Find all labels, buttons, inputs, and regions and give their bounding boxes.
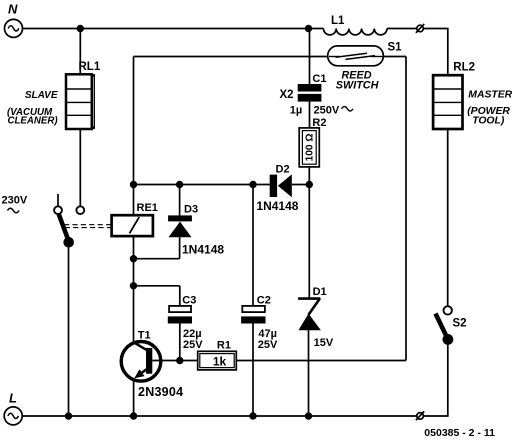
node bottom rail / emitter — [130, 412, 137, 419]
AC source L (mains live terminal) — [4, 407, 22, 425]
svg-text:C1: C1 — [312, 73, 326, 85]
wire C3 branch horizontal — [134, 285, 180, 287]
capacitor C2 (electrolytic) — [241, 306, 265, 324]
svg-text:SLAVE: SLAVE — [25, 90, 58, 101]
relay contact RL2 — [433, 75, 462, 129]
wire right loop vertical — [405, 57, 407, 361]
svg-text:S1: S1 — [388, 42, 403, 54]
node C2 top — [249, 181, 256, 188]
node R2 bottom / D1 — [306, 181, 313, 188]
relay contact RL1 — [66, 74, 95, 129]
wire C2 bottom — [252, 324, 254, 417]
capacitor C3 (electrolytic) — [168, 306, 192, 324]
tilde 250V — [342, 107, 354, 111]
wire bottom rail — [22, 415, 417, 417]
mechanical link dashes (RE1 to contact) — [64, 225, 112, 228]
wire S2 top to RL2 — [447, 129, 449, 306]
node base / C3 — [176, 357, 183, 364]
svg-text:MASTER: MASTER — [468, 89, 512, 100]
relay coil RE1 — [112, 215, 153, 236]
svg-text:D2: D2 — [276, 164, 290, 176]
inductor L1 — [324, 29, 388, 35]
switch blade (relay contact arm) — [59, 214, 69, 242]
svg-text:N: N — [8, 2, 18, 17]
wire D3 bottom — [179, 237, 181, 259]
transistor T1 — [121, 342, 161, 382]
svg-text:1N4148: 1N4148 — [182, 243, 224, 257]
node bottom rail / D1 — [305, 412, 312, 419]
wire reed line vertical x=133.5 (down to transistor) — [133, 57, 135, 216]
tilde 230V — [8, 208, 20, 213]
wire supply node horizontal y=184.5 — [134, 184, 271, 186]
resistor R2 — [299, 128, 319, 167]
svg-text:C3: C3 — [182, 294, 196, 306]
svg-text:C2: C2 — [257, 294, 271, 306]
svg-text:CLEANER): CLEANER) — [8, 115, 58, 126]
svg-text:L: L — [9, 391, 17, 406]
wire base — [152, 360, 197, 362]
wire bottom rail right end — [423, 415, 448, 417]
switch S2 pivot dot — [443, 334, 454, 345]
capacitor C1 (X2 class) — [298, 84, 322, 102]
wire D1 bottom — [308, 330, 310, 416]
contact stub left — [57, 194, 59, 206]
wire RL1 top — [79, 29, 81, 75]
svg-text:RL2: RL2 — [453, 62, 475, 74]
svg-text:25V: 25V — [258, 339, 278, 351]
svg-text:D3: D3 — [184, 203, 198, 215]
wire RL1 bottom to contact — [79, 129, 81, 206]
wire C3 bottom — [179, 324, 181, 361]
svg-text:2N3904: 2N3904 — [138, 385, 183, 399]
svg-text:L1: L1 — [331, 15, 345, 27]
node C3 branch — [130, 282, 137, 289]
reed switch S1 — [328, 46, 384, 66]
svg-text:250V: 250V — [314, 105, 340, 117]
wire C3 top — [179, 286, 181, 306]
contact terminal circle right — [76, 206, 84, 214]
switch S2 terminal circle — [444, 306, 452, 314]
wire top rail coil to connector — [387, 28, 417, 30]
wire reed switch horizontal — [134, 56, 407, 58]
wire D3 to collector line — [134, 258, 180, 260]
svg-text:25V: 25V — [183, 339, 203, 351]
svg-text:230V: 230V — [2, 195, 28, 207]
diode D2 — [270, 174, 292, 197]
svg-text:R1: R1 — [217, 340, 231, 352]
node top rail / RL1 branch — [77, 25, 84, 32]
svg-text:100 Ω: 100 Ω — [305, 133, 316, 161]
wire D1 top — [308, 185, 310, 299]
svg-text:1µ: 1µ — [290, 105, 302, 117]
svg-text:SWITCH: SWITCH — [336, 80, 379, 92]
node bottom rail / switch branch — [65, 412, 72, 419]
svg-text:RE1: RE1 — [137, 202, 158, 214]
connector top (mains plug) — [416, 24, 424, 33]
switch S2 blade — [436, 314, 448, 340]
wire C1 to R2 — [309, 102, 311, 128]
svg-text:S2: S2 — [453, 318, 467, 330]
svg-text:15V: 15V — [314, 337, 334, 349]
connector bottom (mains plug) — [416, 411, 424, 420]
wire S2 bottom — [447, 340, 449, 417]
blade pivot dot — [63, 237, 74, 248]
node bottom rail / C2 — [249, 412, 256, 419]
svg-text:1N4148: 1N4148 — [256, 199, 298, 213]
node RE1 top — [130, 181, 137, 188]
wire emitter to bottom rail — [133, 380, 135, 417]
node top rail / C1 branch — [305, 25, 312, 32]
svg-text:1k: 1k — [213, 354, 227, 368]
diode D3 — [168, 215, 192, 237]
wire pivot to bottom rail — [68, 242, 70, 416]
wire R2 bottom — [308, 167, 310, 185]
wire top rail right end — [423, 28, 448, 30]
svg-text:050385 - 2 - 11: 050385 - 2 - 11 — [424, 427, 495, 439]
AC source N (mains neutral terminal) — [5, 19, 23, 37]
resistor R1 — [198, 351, 237, 370]
wire C2 top — [252, 185, 254, 306]
svg-text:TOOL): TOOL) — [472, 115, 505, 126]
zener diode D1 — [298, 299, 321, 331]
contact terminal circle left — [54, 206, 62, 214]
svg-text:RL1: RL1 — [79, 61, 101, 73]
wire C1 top — [309, 29, 311, 85]
node D3 top — [176, 181, 183, 188]
wire right loop bottom to R1 — [236, 360, 406, 362]
node coil bottom — [130, 255, 137, 262]
wire RL2 top — [447, 29, 449, 76]
wire D3 top — [179, 185, 181, 216]
svg-text:X2: X2 — [280, 89, 294, 101]
svg-text:T1: T1 — [138, 330, 151, 342]
wire top rail left segment — [22, 28, 323, 30]
svg-text:D1: D1 — [313, 286, 327, 298]
